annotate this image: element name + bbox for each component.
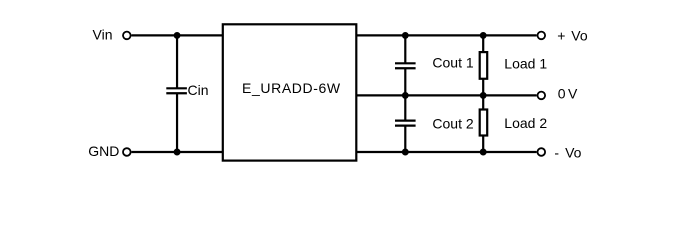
- capacitor Cin: [166, 88, 187, 93]
- wire -Vo rail: [356, 151, 536, 153]
- wire Load bus middle lower: [482, 95, 484, 109]
- wire input bus lower: [176, 93, 178, 152]
- resistor Load 2: [480, 110, 488, 136]
- svg-text:GND: GND: [88, 143, 119, 159]
- junction Load top: [480, 32, 487, 39]
- svg-text:Load 1: Load 1: [504, 56, 547, 72]
- junction input bottom: [174, 149, 181, 156]
- wire Cout bus lower: [404, 126, 406, 152]
- terminal Vin: [123, 32, 131, 40]
- svg-text:- Vo: - Vo: [554, 144, 581, 160]
- junction Load middle: [480, 92, 487, 99]
- wire GND input: [132, 151, 223, 153]
- junction input top: [174, 32, 181, 39]
- resistor Load 1: [480, 52, 488, 79]
- terminal GND: [123, 148, 131, 156]
- svg-text:Vin: Vin: [93, 26, 113, 42]
- wire Cout bus middle: [404, 68, 406, 120]
- svg-text:Cout 1: Cout 1: [432, 54, 473, 70]
- junction Cout middle: [402, 92, 409, 99]
- svg-text:Load 2: Load 2: [504, 115, 547, 131]
- capacitor Cout 1: [395, 63, 416, 68]
- wire Vin input: [132, 34, 223, 36]
- terminal -Vo: [538, 148, 546, 156]
- wire Load bus middle upper: [482, 79, 484, 96]
- terminal 0V: [538, 92, 546, 100]
- svg-text:+ Vo: + Vo: [557, 27, 588, 43]
- wire Load bus upper: [482, 35, 484, 52]
- svg-text:Cout 2: Cout 2: [432, 116, 473, 132]
- terminal +Vo: [538, 32, 546, 40]
- wire Load bus lower: [482, 136, 484, 153]
- converter U1 box: [223, 24, 356, 160]
- wire input bus upper: [176, 35, 178, 88]
- wire 0V rail: [356, 94, 536, 96]
- junction Cout bottom: [402, 149, 409, 156]
- svg-text:0 V: 0 V: [558, 86, 578, 102]
- junction Cout top: [402, 32, 409, 39]
- wire +Vo rail: [356, 34, 536, 36]
- wire Cout bus upper: [404, 35, 406, 63]
- capacitor Cout 2: [395, 121, 416, 126]
- junction Load bottom: [480, 149, 487, 156]
- svg-text:E_URADD-6W: E_URADD-6W: [242, 80, 341, 96]
- svg-text:Cin: Cin: [188, 82, 209, 98]
